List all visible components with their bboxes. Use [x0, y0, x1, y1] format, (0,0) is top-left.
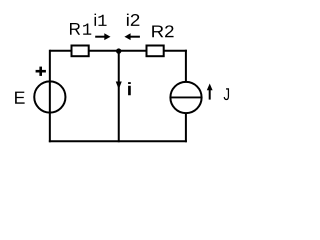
wire top horizontal: [50, 50, 187, 52]
wire bottom horizontal: [49, 140, 187, 142]
label i2: [127, 14, 139, 26]
label i1: [95, 14, 107, 26]
current arrow i2: [124, 33, 139, 40]
voltage source E circle: [34, 81, 65, 112]
label J: [224, 88, 229, 100]
label E: [15, 92, 25, 104]
label R2: [152, 25, 173, 37]
wire right vertical: [185, 50, 187, 143]
label i: [128, 82, 131, 95]
current arrow i1: [95, 33, 110, 40]
label R1: [70, 23, 91, 35]
current arrow i on middle wire: [116, 82, 122, 90]
current source J circle: [170, 82, 201, 113]
current source J bar: [170, 96, 201, 98]
wire left vertical: [49, 50, 51, 143]
wire middle vertical: [118, 51, 120, 143]
current arrow J: [207, 84, 213, 100]
node junction dot: [116, 48, 121, 53]
plus polarity mark: [36, 67, 46, 76]
resistor R2: [147, 46, 164, 57]
resistor R1: [72, 46, 89, 57]
